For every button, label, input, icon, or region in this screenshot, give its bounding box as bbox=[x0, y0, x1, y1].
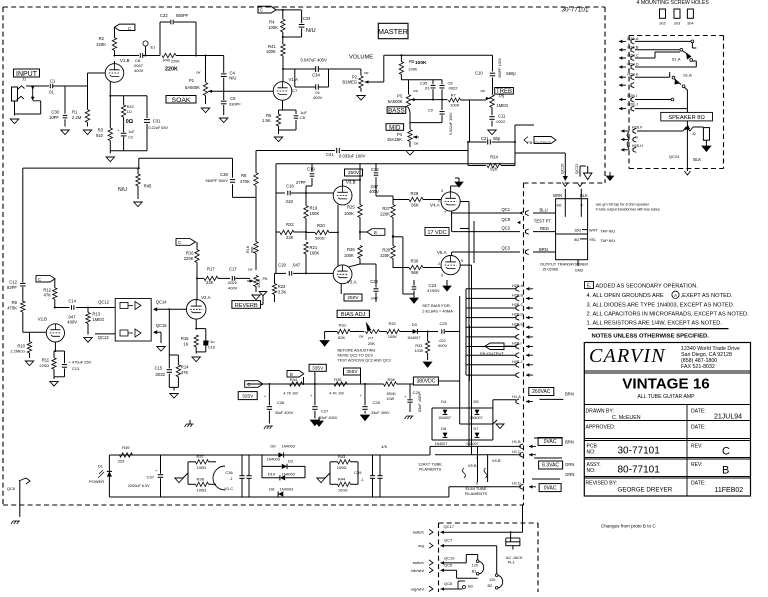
svg-text:220K: 220K bbox=[184, 256, 194, 261]
svg-text:C23: C23 bbox=[370, 279, 378, 284]
svg-text:H2B.E: H2B.E bbox=[512, 322, 523, 326]
svg-text:100Ω: 100Ω bbox=[338, 488, 348, 493]
svg-text:0Ω: 0Ω bbox=[126, 119, 134, 125]
svg-text:BRN: BRN bbox=[539, 247, 548, 252]
svg-text:27PF: 27PF bbox=[296, 180, 306, 185]
svg-text:use grn 4Ω tap for 8 ohm speak: use grn 4Ω tap for 8 ohm speaker bbox=[596, 203, 650, 207]
svg-text:C39: C39 bbox=[354, 470, 362, 475]
svg-text:47K: 47K bbox=[181, 370, 189, 375]
svg-text:33uF 400V: 33uF 400V bbox=[275, 411, 294, 415]
svg-text:NO:: NO: bbox=[587, 450, 596, 456]
svg-text:Changes from proto B to C: Changes from proto B to C bbox=[601, 524, 656, 529]
svg-text:QC2: QC2 bbox=[502, 226, 511, 231]
svg-text:R34: R34 bbox=[290, 377, 298, 382]
svg-text:BRN: BRN bbox=[565, 439, 574, 444]
svg-text:10W: 10W bbox=[386, 397, 394, 401]
svg-text:1uF: 1uF bbox=[128, 130, 135, 134]
svg-text:330PF: 330PF bbox=[229, 102, 241, 107]
svg-text:GEORGE DREYER: GEORGE DREYER bbox=[618, 487, 673, 494]
svg-text:100K: 100K bbox=[388, 334, 398, 339]
svg-text:TAP N/U: TAP N/U bbox=[601, 239, 616, 243]
svg-text:R10: R10 bbox=[17, 343, 25, 348]
svg-text:250V: 250V bbox=[348, 170, 360, 176]
svg-text:100K: 100K bbox=[268, 25, 278, 30]
svg-text:+: + bbox=[117, 128, 120, 133]
svg-text:blk/wht: blk/wht bbox=[411, 568, 424, 573]
svg-text:B3: B3 bbox=[468, 585, 473, 589]
svg-text:QC1: QC1 bbox=[502, 207, 511, 212]
svg-text:QC9: QC9 bbox=[502, 217, 511, 222]
svg-text:30-77101: 30-77101 bbox=[561, 7, 588, 14]
svg-text:100Ω: 100Ω bbox=[197, 488, 207, 493]
svg-text:2: 2 bbox=[438, 262, 440, 266]
svg-text:350Ω: 350Ω bbox=[386, 392, 395, 396]
svg-text:R26: R26 bbox=[347, 247, 355, 252]
svg-text:220Ω: 220Ω bbox=[39, 363, 49, 368]
svg-text:250V: 250V bbox=[347, 295, 359, 301]
svg-text:1.5K: 1.5K bbox=[262, 118, 271, 123]
svg-text:cw: cw bbox=[414, 142, 419, 146]
svg-text:C28: C28 bbox=[373, 400, 381, 405]
svg-text:cw: cw bbox=[359, 334, 364, 338]
svg-text:R11: R11 bbox=[42, 358, 50, 363]
svg-text:R37: R37 bbox=[197, 454, 205, 459]
svg-text:.1: .1 bbox=[229, 476, 233, 481]
svg-text:1. ALL RESISTORS ARE 1/4W, EX: 1. ALL RESISTORS ARE 1/4W, EXCEPT AS NOT… bbox=[587, 321, 723, 327]
svg-text:CARVIN: CARVIN bbox=[589, 345, 666, 367]
svg-text:org/wht: org/wht bbox=[411, 587, 425, 592]
svg-text:YEL: YEL bbox=[589, 238, 596, 242]
svg-text:BASS: BASS bbox=[388, 107, 405, 114]
svg-text:REVISED BY:: REVISED BY: bbox=[586, 481, 618, 487]
svg-text:R4: R4 bbox=[269, 20, 275, 25]
svg-text:1N4003: 1N4003 bbox=[267, 458, 280, 462]
svg-text:R33: R33 bbox=[415, 344, 422, 348]
svg-text:56p: 56p bbox=[493, 136, 501, 141]
svg-text:C: C bbox=[248, 382, 251, 387]
svg-text:S1.B: S1.B bbox=[683, 73, 692, 78]
svg-text:B1MEG: B1MEG bbox=[342, 79, 357, 84]
svg-text:B: B bbox=[374, 230, 377, 235]
svg-text:1Ω: 1Ω bbox=[127, 110, 132, 114]
svg-text:380VDC: 380VDC bbox=[416, 379, 435, 385]
svg-text:TAP N/U: TAP N/U bbox=[601, 229, 616, 233]
svg-text:VOLUME: VOLUME bbox=[349, 55, 373, 61]
svg-text:33uF 400V: 33uF 400V bbox=[319, 416, 338, 420]
svg-text:470K: 470K bbox=[240, 179, 250, 184]
svg-text:2200uF 6.3V: 2200uF 6.3V bbox=[128, 484, 150, 488]
svg-text:C6: C6 bbox=[300, 115, 306, 120]
svg-text:2.2M: 2.2M bbox=[72, 115, 82, 120]
svg-text:R38: R38 bbox=[197, 476, 205, 481]
svg-text:H2B.I: H2B.I bbox=[512, 342, 522, 346]
svg-text:+: + bbox=[404, 394, 407, 399]
svg-text:.01: .01 bbox=[424, 86, 430, 91]
svg-text:V1.C: V1.C bbox=[224, 486, 233, 491]
svg-text:22K: 22K bbox=[286, 235, 294, 240]
svg-text:56K: 56K bbox=[411, 270, 419, 275]
svg-text:A: A bbox=[674, 293, 678, 298]
svg-text:N/U: N/U bbox=[306, 28, 316, 34]
svg-text:V1.B: V1.B bbox=[120, 58, 130, 63]
svg-text:1MEG: 1MEG bbox=[496, 103, 508, 108]
svg-text:C16: C16 bbox=[208, 345, 216, 350]
svg-text:TEST PT.: TEST PT. bbox=[534, 219, 552, 224]
svg-text:17 VDC: 17 VDC bbox=[428, 230, 447, 236]
svg-text:C11: C11 bbox=[498, 114, 506, 119]
svg-text:56K: 56K bbox=[411, 203, 419, 208]
svg-text:C30: C30 bbox=[51, 110, 59, 115]
svg-text:.022: .022 bbox=[438, 339, 445, 343]
svg-text:C27: C27 bbox=[321, 409, 329, 414]
svg-text:C14: C14 bbox=[68, 299, 76, 304]
svg-text:910: 910 bbox=[96, 133, 104, 138]
svg-text:D6: D6 bbox=[441, 426, 447, 431]
svg-text:560p: 560p bbox=[506, 71, 516, 76]
svg-text:C5: C5 bbox=[230, 96, 236, 101]
svg-text:B1: B1 bbox=[472, 569, 477, 573]
svg-text:9: 9 bbox=[461, 259, 463, 263]
svg-text:C7: C7 bbox=[292, 88, 298, 93]
svg-text:NO:: NO: bbox=[587, 468, 596, 474]
svg-text:H2B.J: H2B.J bbox=[512, 360, 522, 364]
svg-text:R42: R42 bbox=[127, 105, 134, 109]
svg-text:GND: GND bbox=[575, 269, 584, 273]
svg-text:4. ALL OPEN GROUNDS ARE: 4. ALL OPEN GROUNDS ARE bbox=[587, 293, 664, 299]
svg-text:21JUL94: 21JUL94 bbox=[714, 414, 742, 421]
svg-text:325V: 325V bbox=[242, 393, 254, 399]
svg-text:100K: 100K bbox=[266, 49, 276, 54]
svg-text:QC7: QC7 bbox=[444, 537, 453, 542]
svg-text:INPUT: INPUT bbox=[16, 71, 38, 78]
svg-text:2. ALL CAPACITORS IN MICROFAR: 2. ALL CAPACITORS IN MICROFARADS, EXCEPT… bbox=[587, 312, 750, 318]
svg-text:cw: cw bbox=[248, 268, 253, 272]
svg-text:R45: R45 bbox=[144, 184, 152, 189]
svg-text:H2B.H: H2B.H bbox=[632, 144, 643, 148]
svg-text:100Ω: 100Ω bbox=[197, 465, 207, 470]
svg-text:R35: R35 bbox=[334, 377, 342, 382]
svg-text:C: C bbox=[128, 26, 131, 31]
svg-text:C22: C22 bbox=[371, 167, 379, 172]
svg-text:D7: D7 bbox=[474, 426, 480, 431]
svg-text:P3: P3 bbox=[397, 94, 403, 99]
svg-text:.047: .047 bbox=[370, 296, 379, 301]
svg-text:J2: J2 bbox=[692, 132, 696, 136]
svg-text:5: 5 bbox=[476, 481, 478, 485]
svg-text:BLK: BLK bbox=[693, 157, 701, 162]
svg-text:.047: .047 bbox=[292, 263, 301, 268]
svg-text:org: org bbox=[418, 543, 424, 548]
svg-text:sh2: sh2 bbox=[659, 22, 665, 26]
svg-text:OUTPUT TRANSFORMER: OUTPUT TRANSFORMER bbox=[540, 262, 588, 267]
svg-text:R14: R14 bbox=[181, 365, 189, 370]
svg-text:100k: 100k bbox=[408, 67, 417, 72]
svg-text:120: 120 bbox=[489, 578, 495, 582]
svg-text:C12: C12 bbox=[9, 280, 17, 285]
svg-text:V2.A: V2.A bbox=[201, 295, 211, 300]
svg-text:3.3K: 3.3K bbox=[278, 290, 287, 295]
svg-text:cw: cw bbox=[364, 71, 369, 75]
svg-text:16Ω: 16Ω bbox=[574, 228, 581, 232]
svg-text:1MEG: 1MEG bbox=[92, 317, 104, 322]
svg-text:REV:: REV: bbox=[691, 462, 702, 468]
svg-text:PL1: PL1 bbox=[508, 559, 516, 564]
svg-text:R8: R8 bbox=[241, 173, 247, 178]
svg-text:C: C bbox=[722, 446, 730, 458]
svg-text:TEST ACROSS QC2 AND QC3: TEST ACROSS QC2 AND QC3 bbox=[338, 359, 391, 363]
svg-text:1N4007: 1N4007 bbox=[435, 442, 448, 446]
svg-text:QC24: QC24 bbox=[669, 154, 680, 159]
svg-text:220K: 220K bbox=[380, 253, 390, 258]
svg-text:103K: 103K bbox=[415, 349, 424, 353]
svg-text:D4: D4 bbox=[441, 399, 447, 404]
svg-text:NOTES UNLESS OTHERWISE SPECIFI: NOTES UNLESS OTHERWISE SPECIFIED. bbox=[592, 334, 710, 340]
svg-text:1N4003: 1N4003 bbox=[282, 473, 295, 477]
svg-text:ALL TUBE GUITAR AMP: ALL TUBE GUITAR AMP bbox=[637, 394, 695, 400]
svg-text:4 tube output transformer with: 4 tube output transformer with two tubes bbox=[596, 208, 660, 212]
svg-text:4Ω: 4Ω bbox=[557, 204, 562, 208]
svg-text:H2B.F: H2B.F bbox=[632, 125, 643, 129]
svg-text:.0022: .0022 bbox=[448, 86, 459, 91]
svg-text:BLU: BLU bbox=[540, 208, 548, 213]
svg-text:4 MOUNTING SCREW HOLES: 4 MOUNTING SCREW HOLES bbox=[637, 0, 710, 6]
svg-text:220K: 220K bbox=[380, 212, 390, 217]
svg-text:C18: C18 bbox=[286, 184, 294, 189]
svg-text:2-EL84S = 40MA: 2-EL84S = 40MA bbox=[422, 309, 453, 314]
svg-text:47/63V: 47/63V bbox=[427, 288, 440, 293]
svg-text:600V: 600V bbox=[438, 344, 447, 348]
svg-text:C15: C15 bbox=[155, 366, 163, 371]
svg-text:switch: switch bbox=[413, 560, 424, 565]
svg-text:R20: R20 bbox=[317, 223, 325, 228]
svg-text:+1u: +1u bbox=[208, 339, 215, 344]
svg-text:R40: R40 bbox=[163, 59, 170, 63]
svg-text:C10: C10 bbox=[475, 70, 483, 75]
svg-text:R1: R1 bbox=[72, 110, 78, 115]
svg-text:VINTAGE 16: VINTAGE 16 bbox=[622, 376, 710, 393]
svg-text:H1.A: H1.A bbox=[512, 395, 521, 399]
svg-text:H2B.D: H2B.D bbox=[512, 313, 523, 317]
svg-text:400V: 400V bbox=[313, 95, 323, 100]
svg-text:cw: cw bbox=[481, 89, 486, 93]
svg-text:H2B.A: H2B.A bbox=[512, 284, 523, 288]
svg-text:R32: R32 bbox=[389, 321, 397, 326]
svg-text:QC14: QC14 bbox=[156, 300, 168, 305]
svg-text:+ 470uF 25V: + 470uF 25V bbox=[68, 359, 91, 364]
svg-text:100Ω: 100Ω bbox=[337, 465, 347, 470]
svg-text:FB /OUTPUT: FB /OUTPUT bbox=[527, 140, 551, 145]
svg-text:63uF 400V: 63uF 400V bbox=[418, 393, 422, 412]
svg-text:.0022: .0022 bbox=[495, 119, 506, 124]
svg-text:B: B bbox=[722, 465, 729, 477]
svg-text:APPROVED:: APPROVED: bbox=[586, 425, 616, 431]
svg-text:300PF 100V: 300PF 100V bbox=[498, 57, 502, 78]
svg-text:QC13: QC13 bbox=[98, 335, 110, 340]
svg-text:MASTER: MASTER bbox=[378, 27, 408, 36]
svg-text:C13: C13 bbox=[72, 366, 80, 371]
svg-text:H2B.J: H2B.J bbox=[627, 102, 637, 106]
svg-text:11FEB02: 11FEB02 bbox=[715, 487, 744, 494]
svg-text:R7: R7 bbox=[451, 92, 457, 97]
svg-text:0.047uF 400V: 0.047uF 400V bbox=[301, 58, 328, 63]
svg-text:.1: .1 bbox=[360, 477, 364, 482]
svg-text:S1.A: S1.A bbox=[672, 57, 681, 62]
svg-text:QC6: QC6 bbox=[444, 581, 453, 586]
svg-text:3: 3 bbox=[441, 189, 443, 193]
svg-text:10PF: 10PF bbox=[49, 115, 59, 120]
svg-text:R23: R23 bbox=[278, 284, 286, 289]
svg-text:DRAWN BY:: DRAWN BY: bbox=[586, 409, 614, 415]
svg-text:1N4007: 1N4007 bbox=[438, 416, 451, 420]
svg-text:sh4: sh4 bbox=[687, 22, 693, 26]
svg-text:SET BIAS FOR:: SET BIAS FOR: bbox=[422, 303, 451, 308]
svg-text:R30: R30 bbox=[411, 259, 419, 264]
svg-text:R19: R19 bbox=[310, 206, 318, 211]
svg-text:1N4007: 1N4007 bbox=[466, 442, 479, 446]
svg-text:GRN: GRN bbox=[565, 472, 574, 477]
svg-text:,EXEPT AS NOTED.: ,EXEPT AS NOTED. bbox=[681, 293, 733, 299]
svg-text:400V: 400V bbox=[228, 286, 238, 291]
svg-text:cw: cw bbox=[196, 70, 201, 74]
svg-text:N/U: N/U bbox=[229, 76, 236, 81]
svg-text:QC17: QC17 bbox=[444, 524, 455, 529]
svg-text:D3: D3 bbox=[412, 322, 418, 327]
svg-text:H2B.C: H2B.C bbox=[512, 303, 523, 307]
svg-text:C36: C36 bbox=[225, 470, 233, 475]
svg-text:335V: 335V bbox=[312, 366, 324, 372]
svg-text:RED: RED bbox=[540, 226, 549, 231]
svg-text:D2: D2 bbox=[288, 458, 294, 463]
svg-text:QC8: QC8 bbox=[7, 486, 16, 491]
svg-text:30-77101: 30-77101 bbox=[618, 446, 661, 457]
svg-text:82PF: 82PF bbox=[7, 285, 17, 290]
svg-text:BEFORE ADJUSTING: BEFORE ADJUSTING bbox=[338, 349, 376, 353]
svg-text:355V: 355V bbox=[346, 369, 358, 375]
svg-text:DATE:: DATE: bbox=[691, 409, 706, 415]
svg-text:C19: C19 bbox=[307, 167, 315, 172]
svg-text:R9: R9 bbox=[12, 300, 18, 305]
svg-text:FAX 521-8032: FAX 521-8032 bbox=[681, 364, 715, 370]
svg-text:FILAMENTS: FILAMENTS bbox=[419, 467, 442, 472]
svg-text:560PF 500V: 560PF 500V bbox=[206, 178, 229, 183]
svg-text:470K: 470K bbox=[7, 305, 17, 310]
svg-text:+: + bbox=[310, 393, 313, 398]
svg-text:DATE:: DATE: bbox=[691, 481, 706, 487]
svg-text:SOAK: SOAK bbox=[172, 97, 191, 104]
svg-text:ADDED AS SECONDARY OPERATION.: ADDED AS SECONDARY OPERATION. bbox=[596, 284, 699, 290]
svg-text:MID: MID bbox=[389, 124, 401, 131]
svg-text:QC15: QC15 bbox=[156, 323, 168, 328]
svg-text:.0022: .0022 bbox=[227, 280, 238, 285]
svg-text:C33: C33 bbox=[303, 16, 311, 21]
svg-text:5A500K: 5A500K bbox=[388, 99, 403, 104]
svg-text:0.022uF 100V: 0.022uF 100V bbox=[449, 112, 453, 135]
svg-text:2.2MEG: 2.2MEG bbox=[10, 349, 25, 354]
svg-text:15-02066: 15-02066 bbox=[542, 268, 558, 272]
svg-text:FILAMENTS: FILAMENTS bbox=[465, 491, 488, 496]
svg-text:V4.A: V4.A bbox=[430, 203, 440, 208]
svg-text:R25: R25 bbox=[347, 205, 355, 210]
svg-text:C32: C32 bbox=[160, 13, 168, 18]
svg-text:P7: P7 bbox=[368, 335, 374, 340]
svg-text:BRN: BRN bbox=[565, 392, 574, 397]
svg-text:80-77101: 80-77101 bbox=[618, 465, 661, 476]
svg-text:4.7K 1W: 4.7K 1W bbox=[283, 391, 298, 395]
svg-text:47K: 47K bbox=[44, 293, 52, 298]
svg-text:100K: 100K bbox=[310, 251, 320, 256]
svg-text:220K: 220K bbox=[96, 42, 106, 47]
svg-text:100K: 100K bbox=[344, 211, 354, 216]
svg-text:400V: 400V bbox=[134, 68, 144, 73]
svg-text:H2B.B: H2B.B bbox=[512, 293, 523, 297]
svg-text:0.033uF 100V: 0.033uF 100V bbox=[339, 154, 366, 159]
svg-text:82K: 82K bbox=[338, 335, 345, 340]
svg-text:QC22: QC22 bbox=[574, 163, 579, 174]
svg-text:1N4003: 1N4003 bbox=[280, 488, 293, 492]
svg-text:P6: P6 bbox=[263, 276, 269, 281]
svg-text:C26: C26 bbox=[277, 400, 285, 405]
svg-text:7: 7 bbox=[444, 211, 446, 215]
svg-text:C17: C17 bbox=[229, 267, 237, 272]
svg-text:V3.A: V3.A bbox=[347, 280, 357, 285]
svg-text:R31: R31 bbox=[339, 323, 347, 328]
svg-text:0.22uF 63V: 0.22uF 63V bbox=[148, 126, 168, 130]
svg-text:V5.B: V5.B bbox=[468, 463, 477, 468]
svg-text:C20: C20 bbox=[278, 263, 286, 268]
svg-text:66K: 66K bbox=[250, 246, 254, 253]
svg-text:B: B bbox=[290, 372, 293, 377]
svg-text:5.: 5. bbox=[587, 283, 592, 289]
svg-text:4/5: 4/5 bbox=[381, 444, 387, 449]
svg-text:C: C bbox=[38, 277, 41, 282]
svg-text:C34: C34 bbox=[312, 73, 320, 78]
svg-text:D10: D10 bbox=[268, 472, 276, 477]
svg-text:R15: R15 bbox=[181, 336, 189, 341]
svg-text:82K: 82K bbox=[490, 167, 498, 172]
svg-text:C: C bbox=[260, 8, 263, 13]
svg-text:.0022: .0022 bbox=[155, 372, 166, 377]
svg-text:.01: .01 bbox=[48, 90, 54, 95]
svg-text:1N4003: 1N4003 bbox=[282, 445, 295, 449]
svg-text:R24: R24 bbox=[490, 155, 498, 160]
svg-text:R29: R29 bbox=[411, 191, 419, 196]
svg-text:C: C bbox=[178, 240, 181, 245]
svg-text:BIAS ADJ: BIAS ADJ bbox=[341, 312, 366, 318]
svg-text:N/U: N/U bbox=[118, 187, 127, 193]
svg-text:H1.B: H1.B bbox=[512, 440, 521, 444]
svg-text:D1: D1 bbox=[98, 464, 104, 469]
svg-text:R43: R43 bbox=[338, 454, 346, 459]
svg-text:R44: R44 bbox=[338, 476, 346, 481]
svg-text:B2: B2 bbox=[488, 584, 493, 588]
svg-text:D5: D5 bbox=[474, 399, 480, 404]
svg-text:R36: R36 bbox=[388, 377, 396, 382]
svg-text:C2: C2 bbox=[128, 135, 133, 139]
svg-text:V5.A: V5.A bbox=[437, 250, 447, 255]
svg-text:QC3: QC3 bbox=[502, 246, 511, 251]
svg-text:QC12: QC12 bbox=[98, 299, 110, 304]
svg-text:R21: R21 bbox=[310, 245, 318, 250]
svg-text:V1.A: V1.A bbox=[289, 77, 299, 82]
svg-text:560Ω: 560Ω bbox=[315, 236, 325, 241]
svg-text:FB /OUTPUT: FB /OUTPUT bbox=[480, 351, 504, 356]
svg-text:QC10: QC10 bbox=[444, 555, 455, 560]
svg-text:C1: C1 bbox=[50, 79, 56, 84]
svg-text:400V: 400V bbox=[369, 189, 379, 194]
svg-text:R22: R22 bbox=[286, 222, 294, 227]
svg-text:3. ALL DIODES ARE TYPE 1N4003: 3. ALL DIODES ARE TYPE 1N4003, EXCEPT AS… bbox=[587, 302, 735, 308]
svg-text:1N4007: 1N4007 bbox=[470, 416, 483, 420]
